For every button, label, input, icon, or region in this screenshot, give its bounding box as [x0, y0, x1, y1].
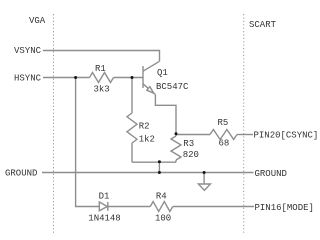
svg-text:1N4148: 1N4148 [88, 214, 120, 224]
node ground rail junction [158, 171, 161, 174]
transistor Q1 [143, 61, 160, 94]
svg-text:BC547C: BC547C [156, 82, 189, 92]
wire R1 to base node [114, 77, 144, 79]
svg-text:R2: R2 [139, 122, 150, 132]
ground symbol [198, 173, 210, 191]
svg-text:68: 68 [219, 139, 230, 149]
node HSYNC junction [74, 76, 77, 79]
svg-text:SCART: SCART [249, 20, 277, 30]
svg-text:R5: R5 [218, 118, 229, 128]
node ground symbol junction [203, 171, 206, 174]
svg-text:VSYNC: VSYNC [14, 46, 42, 56]
node base junction [131, 76, 134, 79]
svg-text:Q1: Q1 [157, 68, 168, 78]
svg-text:820: 820 [183, 150, 199, 160]
resistor R1 [90, 73, 114, 83]
svg-text:R1: R1 [95, 64, 106, 74]
wire emitter node to R5 [176, 134, 210, 136]
svg-text:1k2: 1k2 [139, 135, 155, 145]
svg-text:D1: D1 [99, 192, 110, 202]
wire R5 to PIN20 [237, 134, 253, 136]
VGA boundary dashed line [53, 14, 55, 234]
svg-text:R3: R3 [183, 139, 194, 149]
wire HSYNC drop to bottom branch [76, 78, 100, 207]
node emitter/R3/R5 junction [175, 132, 178, 135]
resistor R5 [210, 130, 237, 140]
wire D1 to R4 [108, 206, 151, 208]
diode D1 [99, 202, 108, 211]
svg-text:PIN16[MODE]: PIN16[MODE] [255, 203, 314, 213]
svg-text:R4: R4 [156, 192, 167, 202]
wire HSYNC left [43, 77, 90, 79]
resistor R2 [127, 78, 137, 163]
svg-text:VGA: VGA [29, 16, 46, 26]
wire GROUND rail [42, 172, 254, 174]
svg-text:GROUND: GROUND [5, 169, 37, 179]
wire emitter path [155, 95, 176, 134]
svg-text:3k3: 3k3 [94, 85, 110, 95]
resistor R3 [171, 134, 181, 162]
resistor R4 [150, 202, 173, 212]
wire R4 to PIN16 [173, 206, 254, 208]
svg-text:HSYNC: HSYNC [14, 74, 42, 84]
svg-text:100: 100 [155, 214, 171, 224]
svg-text:GROUND: GROUND [255, 169, 287, 179]
wire VSYNC rail [43, 51, 160, 62]
SCART boundary dashed line [243, 14, 245, 234]
node R2/R3 bottom junction [158, 160, 161, 163]
svg-text:PIN20[CSYNC]: PIN20[CSYNC] [254, 130, 319, 140]
wire connector to ground rail [158, 162, 160, 172]
wire R2/R3 bottom connector [132, 161, 176, 163]
